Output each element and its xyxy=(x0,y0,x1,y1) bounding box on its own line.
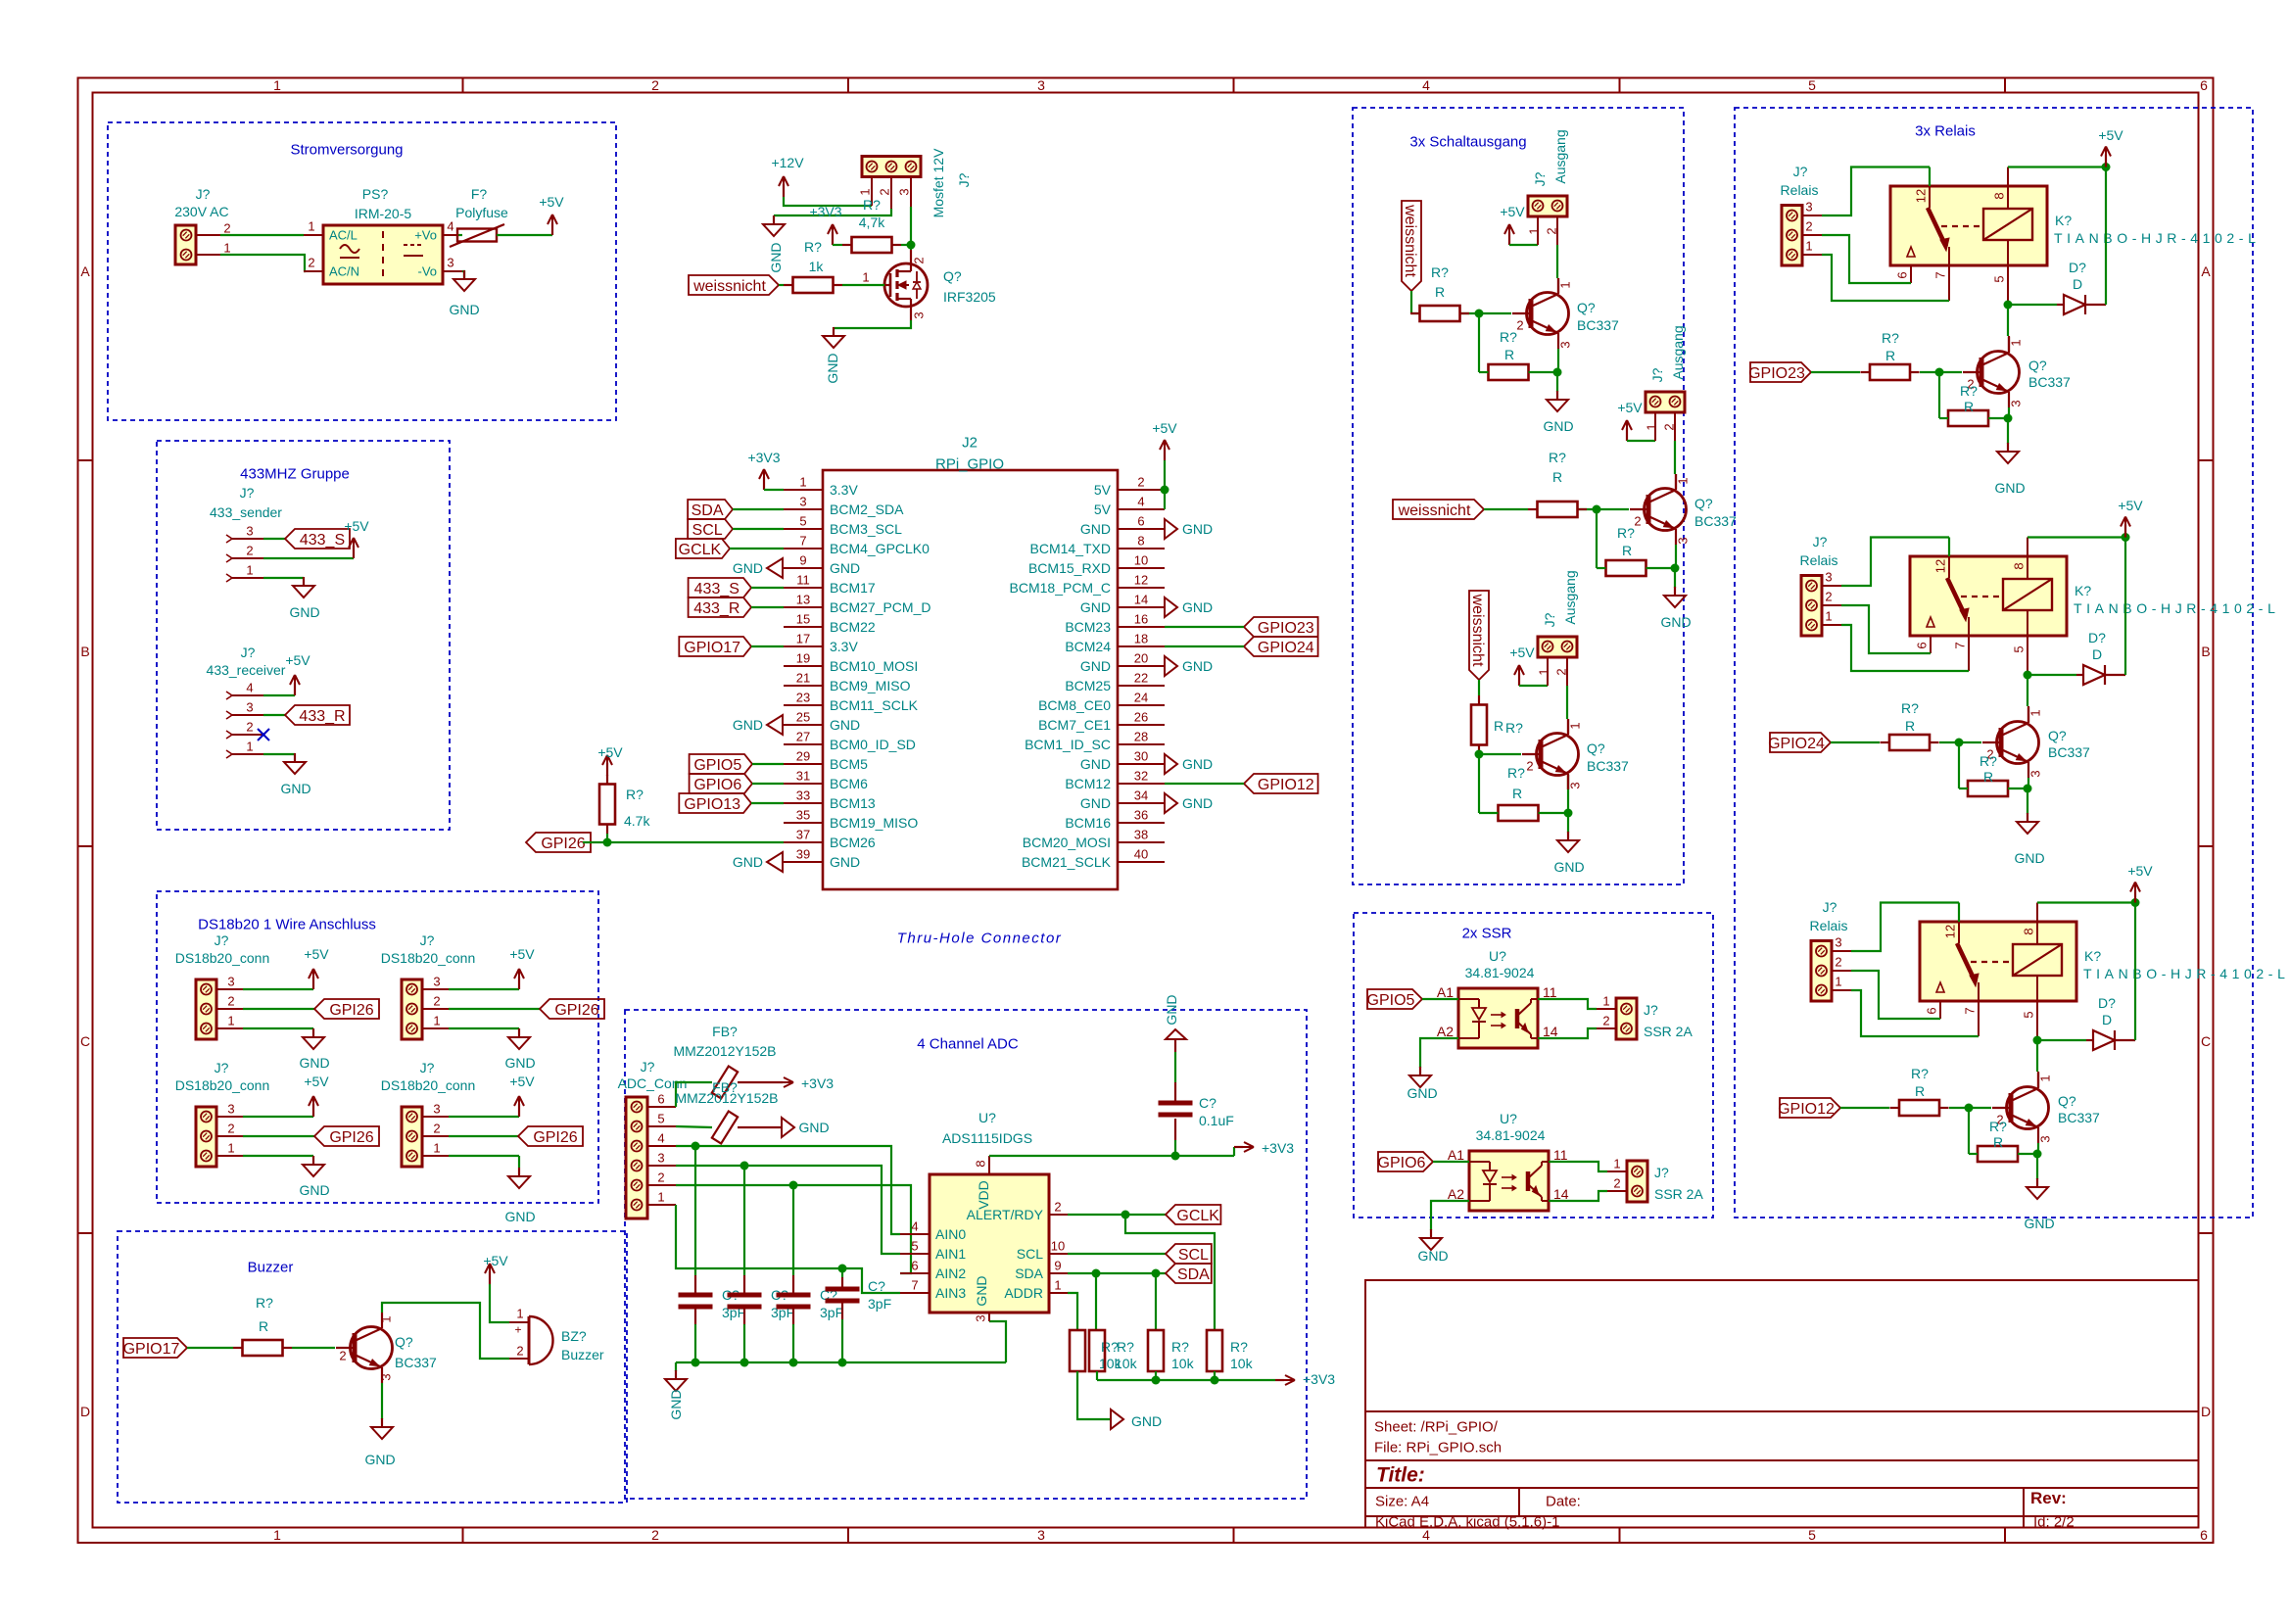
wire junction to pulldown R xyxy=(1968,1108,1970,1154)
junction xyxy=(692,1359,700,1367)
svg-text:J?: J? xyxy=(1823,899,1837,915)
svg-text:+3V3: +3V3 xyxy=(801,1075,834,1091)
junction xyxy=(1955,739,1964,747)
J2 pin 40 xyxy=(1118,861,1165,863)
wire pin5 to FB? xyxy=(676,1126,712,1127)
transistor Q? BC337 xyxy=(1537,734,1579,776)
wire conn pin1 to relay pin7 xyxy=(1822,255,1949,301)
wire to GND xyxy=(1674,568,1676,588)
svg-text:2: 2 xyxy=(1526,759,1533,774)
svg-text:+5V: +5V xyxy=(509,1074,535,1089)
wire pin11 to SSR conn xyxy=(1549,1162,1607,1171)
svg-text:File: RPi_GPIO.sch: File: RPi_GPIO.sch xyxy=(1374,1439,1502,1456)
svg-text:12: 12 xyxy=(1134,573,1148,588)
svg-text:4: 4 xyxy=(1137,495,1144,509)
svg-text:R?: R? xyxy=(1500,329,1517,345)
svg-text:+3V3: +3V3 xyxy=(747,450,780,465)
svg-text:1: 1 xyxy=(227,1014,234,1028)
J2 pin 33 xyxy=(784,802,823,804)
svg-text:BCM1_ID_SC: BCM1_ID_SC xyxy=(1025,737,1111,752)
connector J? DS18b20_conn xyxy=(402,979,422,1039)
svg-text:13: 13 xyxy=(796,593,810,607)
svg-text:9: 9 xyxy=(799,553,806,568)
svg-text:7: 7 xyxy=(911,1278,918,1293)
wire to GND xyxy=(2027,788,2028,814)
svg-text:D?: D? xyxy=(2088,630,2106,645)
svg-text:12: 12 xyxy=(1933,559,1948,573)
junction xyxy=(1475,310,1484,318)
svg-text:GPIO17: GPIO17 xyxy=(684,640,740,656)
svg-text:+5V: +5V xyxy=(483,1253,508,1268)
svg-text:D: D xyxy=(2073,276,2082,292)
svg-text:2: 2 xyxy=(433,994,440,1009)
transistor Q? BC337 xyxy=(2007,1087,2049,1129)
svg-text:IRM-20-5: IRM-20-5 xyxy=(355,206,412,221)
svg-text:BCM27_PCM_D: BCM27_PCM_D xyxy=(830,599,930,615)
wire pin3 to +5V xyxy=(243,1116,313,1118)
svg-text:AC/L: AC/L xyxy=(329,228,358,243)
wire conn pin3 to relay pin12 xyxy=(1851,903,1959,952)
svg-text:1: 1 xyxy=(223,241,230,256)
svg-text:3: 3 xyxy=(433,1102,440,1117)
wire emitter to GND xyxy=(381,1383,383,1419)
svg-text:D: D xyxy=(2092,646,2102,662)
svg-text:GND: GND xyxy=(798,1120,829,1135)
svg-text:SCL: SCL xyxy=(692,522,723,539)
svg-text:433_S: 433_S xyxy=(300,532,345,549)
svg-text:R?: R? xyxy=(1171,1339,1189,1355)
svg-text:DS18b20_conn: DS18b20_conn xyxy=(381,950,476,966)
svg-text:3.3V: 3.3V xyxy=(830,639,858,654)
svg-text:GND: GND xyxy=(830,717,860,733)
+5V power symbol xyxy=(312,977,314,989)
wire pin14 to SSR conn xyxy=(1538,1028,1597,1038)
wire source to GND xyxy=(834,320,911,328)
svg-text:1: 1 xyxy=(1805,239,1812,254)
svg-text:GPIO17: GPIO17 xyxy=(123,1341,180,1358)
2x SSR section box xyxy=(1354,913,1713,1218)
svg-text:R: R xyxy=(1905,718,1915,734)
svg-text:1k: 1k xyxy=(809,259,825,274)
svg-text:R?: R? xyxy=(1117,1339,1134,1355)
wire pin2 to GPI26 xyxy=(449,1135,518,1137)
433_receiver pin 4 xyxy=(226,692,232,695)
svg-text:Date:: Date: xyxy=(1546,1493,1581,1509)
svg-text:3: 3 xyxy=(1825,570,1832,585)
wire GPI26 to J2 pin37 xyxy=(583,841,784,843)
svg-text:GND: GND xyxy=(504,1055,535,1071)
+3V3 power symbol xyxy=(754,1081,783,1083)
svg-text:33: 33 xyxy=(796,788,810,803)
svg-text:4: 4 xyxy=(447,219,453,234)
wire emitter xyxy=(1675,545,1677,568)
svg-text:35: 35 xyxy=(796,808,810,823)
connector J? Mosfet 12V xyxy=(862,157,921,177)
wire R? to base junction xyxy=(1479,753,1521,755)
junction xyxy=(838,1359,847,1367)
svg-text:BC337: BC337 xyxy=(1577,317,1619,333)
relay K? TIANBO-HJR-4102-L xyxy=(1920,922,2076,1001)
resistor R? R pulldown xyxy=(1948,410,1988,426)
svg-text:3: 3 xyxy=(657,1151,664,1166)
wire weissnicht to R? xyxy=(1410,291,1412,313)
wire emitter xyxy=(1557,349,1559,372)
wire SDA to R3 xyxy=(1155,1273,1157,1330)
svg-text:GCLK: GCLK xyxy=(1176,1208,1219,1224)
svg-text:2: 2 xyxy=(1137,475,1144,490)
svg-text:R?: R? xyxy=(626,787,644,802)
3x Relais section box xyxy=(1735,108,2253,1218)
wire junction to mosfet drain xyxy=(910,245,912,250)
svg-text:3: 3 xyxy=(246,524,253,539)
svg-text:GND: GND xyxy=(1660,614,1691,630)
svg-text:Thru-Hole Connector: Thru-Hole Connector xyxy=(897,930,1063,946)
svg-text:2: 2 xyxy=(1825,590,1832,604)
pin2 wire to collector xyxy=(1556,216,1558,245)
wire SDA to J2 xyxy=(733,508,784,510)
svg-text:30: 30 xyxy=(1134,749,1148,764)
svg-text:-Vo: -Vo xyxy=(417,264,437,279)
J2 pin 31 xyxy=(784,783,823,785)
svg-text:+5V: +5V xyxy=(304,1074,329,1089)
svg-text:GCLK: GCLK xyxy=(679,542,722,558)
svg-text:C?: C? xyxy=(1199,1095,1217,1111)
U? pin 8 VDD xyxy=(988,1156,990,1174)
svg-text:GPIO24: GPIO24 xyxy=(1258,640,1314,656)
svg-text:3: 3 xyxy=(974,1314,988,1321)
svg-text:A2: A2 xyxy=(1437,1024,1454,1039)
ground GND xyxy=(2027,813,2028,822)
svg-text:3: 3 xyxy=(433,975,440,989)
junction xyxy=(907,241,916,250)
svg-text:R: R xyxy=(1494,718,1503,734)
svg-text:16: 16 xyxy=(1134,612,1148,627)
junction xyxy=(1211,1376,1219,1385)
svg-text:1: 1 xyxy=(862,270,869,285)
svg-text:Q?: Q? xyxy=(1577,300,1596,315)
svg-text:R?: R? xyxy=(1901,700,1919,716)
relay pin 5 coil- xyxy=(2036,976,2038,1001)
svg-text:2: 2 xyxy=(227,994,234,1009)
svg-text:3: 3 xyxy=(1805,200,1812,215)
wire fuse to +5V xyxy=(497,234,552,236)
svg-text:433_R: 433_R xyxy=(299,708,345,725)
+5V power symbol xyxy=(2105,155,2107,167)
resistor R? 10k (SDA2) xyxy=(1148,1330,1164,1371)
svg-text:40: 40 xyxy=(1134,847,1148,862)
transistor Q? BC337 xyxy=(1978,352,2020,394)
wire junction to collector xyxy=(2036,1040,2038,1072)
svg-text:AIN3: AIN3 xyxy=(935,1285,966,1301)
svg-text:2: 2 xyxy=(1554,668,1569,675)
global label GPIO13 xyxy=(679,793,751,813)
svg-text:AC/N: AC/N xyxy=(329,264,359,279)
resistor R? R base xyxy=(1420,306,1460,321)
svg-text:3x Relais: 3x Relais xyxy=(1915,122,1976,139)
svg-text:GND: GND xyxy=(1080,521,1111,537)
global label GPIO17 xyxy=(679,637,751,656)
svg-text:8: 8 xyxy=(1137,534,1144,549)
svg-text:J?: J? xyxy=(1532,171,1548,186)
wire pin1 to GND xyxy=(243,1027,313,1029)
svg-text:J?: J? xyxy=(241,645,256,660)
svg-text:GND: GND xyxy=(1553,859,1584,875)
svg-text:A2: A2 xyxy=(1448,1186,1464,1202)
J2 pin 12 xyxy=(1118,587,1165,589)
svg-text:GND: GND xyxy=(1182,756,1213,772)
wire SCL to label xyxy=(1068,1253,1166,1255)
connector J? Relais xyxy=(1782,206,1802,266)
wire relay pin8 to +5V rail xyxy=(2028,536,2125,538)
resistor R? 10k (SDA) xyxy=(1089,1330,1105,1371)
resistor R? 4,7k xyxy=(852,237,892,253)
wire J? pin1 to PS pin2 xyxy=(220,255,305,271)
svg-text:GND: GND xyxy=(830,560,860,576)
transistor Q? BC337 xyxy=(1997,722,2039,764)
connector J? SSR 2A xyxy=(1627,1161,1647,1202)
svg-text:BCM5: BCM5 xyxy=(830,756,868,772)
svg-text:Ausgang: Ausgang xyxy=(1670,325,1686,379)
hierarchical label GPI26 xyxy=(314,999,379,1019)
J2 pin 2 xyxy=(1118,489,1165,491)
junction xyxy=(1564,809,1573,818)
433_sender pin 2 xyxy=(226,554,232,558)
mosfet Q? IRF3205 xyxy=(884,263,928,307)
svg-text:BCM9_MISO: BCM9_MISO xyxy=(830,678,911,693)
svg-text:Stromversorgung: Stromversorgung xyxy=(290,141,403,158)
wire conn pin2 to relay pin6 xyxy=(1851,971,1940,1019)
svg-text:FB?: FB? xyxy=(712,1024,738,1039)
+3V3 power symbol xyxy=(1275,1379,1284,1381)
svg-text:GND: GND xyxy=(2024,1216,2054,1231)
J2 pin 10 xyxy=(1118,567,1165,569)
wire SDA to label xyxy=(1068,1272,1166,1274)
wire emitter xyxy=(2008,407,2010,418)
global label GCLK xyxy=(676,539,730,558)
junction at pin2 xyxy=(1161,486,1169,495)
svg-text:36: 36 xyxy=(1134,808,1148,823)
svg-text:+5V: +5V xyxy=(1152,420,1177,436)
wire junction to pulldown R xyxy=(1596,509,1598,568)
svg-text:10k: 10k xyxy=(1171,1356,1195,1371)
power supply PS? IRM-20-5 xyxy=(323,225,443,284)
svg-text:SDA: SDA xyxy=(1015,1266,1043,1281)
relay pin 6 NC contact xyxy=(1907,247,1915,257)
U? pin 7 AIN3 xyxy=(900,1292,930,1294)
svg-text:BCM15_RXD: BCM15_RXD xyxy=(1028,560,1111,576)
svg-text:C?: C? xyxy=(868,1278,885,1294)
svg-text:22: 22 xyxy=(1134,671,1148,686)
ground GND xyxy=(767,852,783,872)
J2 pin 15 xyxy=(784,626,823,628)
+5V power symbol xyxy=(2124,525,2126,538)
junction xyxy=(1152,1376,1161,1385)
ground GND xyxy=(1556,391,1558,400)
relay pin 7 NO contact xyxy=(1968,617,1970,636)
svg-text:1: 1 xyxy=(379,1315,394,1322)
svg-text:2: 2 xyxy=(657,1170,664,1185)
svg-text:D: D xyxy=(80,1404,90,1419)
wire +12V to J? pin1 xyxy=(784,197,872,206)
connector J? Ausgang xyxy=(1538,637,1577,657)
ground GND xyxy=(294,753,296,762)
resistor R? R base xyxy=(1870,364,1910,380)
svg-text:433_R: 433_R xyxy=(693,600,739,617)
svg-text:D?: D? xyxy=(2069,260,2086,275)
wire to GND xyxy=(2036,1154,2038,1179)
svg-text:GND: GND xyxy=(830,854,860,870)
svg-text:1: 1 xyxy=(858,188,873,195)
J2 pin 39 xyxy=(784,861,823,863)
resistor R? R pulldown xyxy=(1489,364,1529,380)
ground GND xyxy=(1430,1229,1432,1238)
wire +5V to pin1 xyxy=(1509,244,1538,246)
svg-text:GPIO6: GPIO6 xyxy=(1378,1155,1426,1171)
433_receiver pin 3 xyxy=(226,711,232,715)
J2 pin 17 xyxy=(784,645,823,647)
svg-text:GND: GND xyxy=(289,604,319,620)
relay pin 5 coil- xyxy=(2027,610,2028,636)
resistor R? R pulldown xyxy=(1499,805,1539,821)
svg-text:R: R xyxy=(1885,348,1895,363)
svg-text:K?: K? xyxy=(2055,213,2072,228)
svg-text:27: 27 xyxy=(796,730,810,744)
wire ALERT/RDY to GCLK xyxy=(1068,1214,1166,1216)
connector J? Relais xyxy=(1801,576,1822,637)
U? pin 9 SDA xyxy=(1049,1272,1068,1274)
svg-text:1: 1 xyxy=(273,1527,281,1543)
svg-text:18: 18 xyxy=(1134,632,1148,646)
wire +5V to pin1 xyxy=(1627,440,1655,442)
svg-text:R?: R? xyxy=(1882,330,1899,346)
+12V power symbol xyxy=(783,184,785,197)
svg-text:GND: GND xyxy=(668,1389,684,1419)
svg-text:+Vo: +Vo xyxy=(414,228,437,243)
wire GPIO6 to J2 xyxy=(752,783,784,785)
433MHZ Gruppe section box xyxy=(157,441,450,830)
svg-text:BCM12: BCM12 xyxy=(1065,776,1111,791)
svg-text:+5V: +5V xyxy=(1500,204,1525,219)
svg-text:Q?: Q? xyxy=(2058,1093,2076,1109)
svg-text:6: 6 xyxy=(2200,77,2208,93)
svg-text:GND: GND xyxy=(733,560,763,576)
global label weissnicht xyxy=(689,275,779,295)
svg-text:GPIO5: GPIO5 xyxy=(693,757,741,774)
transistor Q? BC337 xyxy=(351,1327,393,1369)
svg-text:10k: 10k xyxy=(1230,1356,1254,1371)
relay pin 8 coil+ xyxy=(2007,167,2009,187)
ground GND xyxy=(675,1370,677,1379)
svg-text:J?: J? xyxy=(641,1059,655,1075)
junction xyxy=(1171,1152,1180,1161)
pin1 xyxy=(1537,216,1539,245)
J2 pin 34 xyxy=(1118,802,1165,804)
svg-text:B: B xyxy=(80,644,89,659)
svg-text:SSR 2A: SSR 2A xyxy=(1654,1186,1703,1202)
junction xyxy=(1671,564,1680,573)
junction xyxy=(2024,785,2032,793)
Buzzer section box xyxy=(118,1231,627,1503)
connector J? Ausgang xyxy=(1528,196,1567,216)
svg-text:1: 1 xyxy=(227,1141,234,1156)
J2 pin 13 xyxy=(784,606,823,608)
svg-text:2: 2 xyxy=(651,1527,659,1543)
global label GPIO23 xyxy=(1750,362,1811,382)
svg-text:K?: K? xyxy=(2075,583,2091,598)
svg-text:GPI26: GPI26 xyxy=(541,836,585,852)
svg-text:DS18b20 1 Wire Anschluss: DS18b20 1 Wire Anschluss xyxy=(198,916,376,932)
relay pin 12 switch common xyxy=(1958,922,1960,943)
wire pin1 to GND xyxy=(449,1155,519,1157)
wire GPIO17 to J2 xyxy=(751,645,784,647)
global label GPIO17 xyxy=(123,1338,187,1358)
connector J? DS18b20_conn xyxy=(196,979,216,1039)
svg-text:BCM2_SDA: BCM2_SDA xyxy=(830,502,904,517)
svg-text:3: 3 xyxy=(379,1373,394,1380)
wire junction to pulldown xyxy=(1478,754,1480,813)
junction xyxy=(2131,898,2140,907)
svg-text:Title:: Title: xyxy=(1376,1464,1425,1487)
hierarchical label 433_S xyxy=(285,529,350,549)
svg-text:25: 25 xyxy=(796,710,810,725)
junction xyxy=(789,1181,798,1190)
connector J? 230V AC xyxy=(175,225,196,264)
+5V power symbol xyxy=(353,546,355,558)
wire pin4 to AIN0 xyxy=(676,1146,900,1234)
+3V3 power symbol at J2 pin1 xyxy=(763,477,765,490)
J2 pin 9 xyxy=(784,567,823,569)
svg-text:R?: R? xyxy=(1617,525,1635,541)
svg-text:J?: J? xyxy=(240,485,255,501)
svg-text:+5V: +5V xyxy=(304,946,329,962)
resistor R? R base xyxy=(1538,502,1578,517)
svg-text:433MHZ Gruppe: 433MHZ Gruppe xyxy=(240,465,350,482)
wire pin18 to GPIO24 xyxy=(1165,645,1244,647)
svg-text:7: 7 xyxy=(1953,642,1968,648)
svg-text:GND: GND xyxy=(1080,756,1111,772)
ground GND xyxy=(463,270,465,279)
resistor R? R base xyxy=(1889,735,1930,750)
svg-text:BCM16: BCM16 xyxy=(1065,815,1111,831)
svg-text:U?: U? xyxy=(978,1110,996,1125)
wire emitter xyxy=(1567,775,1569,813)
svg-text:24: 24 xyxy=(1134,691,1148,705)
resistor R? R pulldown xyxy=(1978,1146,2018,1162)
wire conn pin2 to relay pin6 xyxy=(1841,605,1931,653)
svg-text:+5V: +5V xyxy=(344,518,369,534)
wire pin16 to GPIO23 xyxy=(1165,626,1244,628)
connector J? DS18b20_conn xyxy=(196,1107,216,1167)
svg-text:BCM26: BCM26 xyxy=(830,835,876,850)
svg-text:VDD: VDD xyxy=(976,1180,991,1210)
svg-text:1: 1 xyxy=(2028,709,2043,716)
ground GND xyxy=(1165,754,1177,774)
relay dashed actuator line xyxy=(1941,225,1983,227)
relay dashed actuator line xyxy=(1961,596,2003,597)
svg-text:DS18b20_conn: DS18b20_conn xyxy=(175,1077,270,1093)
svg-text:SDA: SDA xyxy=(1177,1266,1210,1283)
hierarchical label SCL xyxy=(1166,1244,1212,1264)
svg-text:IRF3205: IRF3205 xyxy=(943,289,996,305)
relay pin 5 coil- xyxy=(2007,240,2009,265)
svg-text:GND: GND xyxy=(1182,521,1213,537)
wire pin2 to GPI26 xyxy=(243,1008,314,1010)
svg-text:R: R xyxy=(1993,1134,2003,1150)
global label GPIO6 xyxy=(690,774,752,793)
svg-text:GND: GND xyxy=(1131,1413,1162,1429)
svg-text:GPIO6: GPIO6 xyxy=(693,777,741,793)
svg-text:1: 1 xyxy=(1568,722,1583,729)
